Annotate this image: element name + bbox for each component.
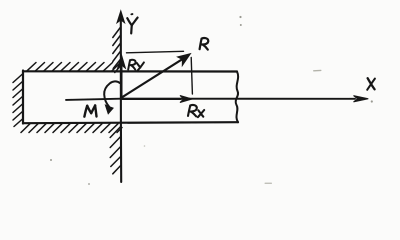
- label X (axis): [367, 78, 375, 90]
- label Y (axis): [127, 18, 137, 34]
- Y axis arrowhead: [117, 11, 125, 24]
- label R (resultant): [200, 38, 209, 50]
- Ry arrowhead: [117, 55, 125, 68]
- beam break line (wavy end): [236, 72, 238, 123]
- Rx arrowhead: [180, 96, 192, 103]
- wall face hatching along Y axis above beam: [113, 28, 121, 73]
- construction line horizontal (from Ry tip to R tip): [127, 51, 184, 53]
- dot above Y: [130, 13, 133, 16]
- beam outline (cantilever bar with broken right end): [22, 71, 24, 124]
- wall hatching below beam bottom edge: [21, 124, 122, 133]
- label Rx: [188, 105, 204, 117]
- resultant vector R: [122, 58, 185, 98]
- hand-lettered labels: [84, 13, 375, 117]
- wall face hatching below beam: [110, 127, 121, 174]
- X axis arrowhead: [354, 96, 369, 102]
- construction line vertical (from R tip to X axis): [191, 58, 192, 95]
- Y axis / wall face vertical line: [120, 17, 122, 182]
- wall hatching left of beam: [13, 74, 23, 127]
- label M (moment): [84, 106, 96, 117]
- wall hatching above beam top edge: [27, 63, 120, 71]
- Ry component arrow (along Y axis): [120, 67, 122, 97]
- moment M arrowhead: [105, 105, 113, 114]
- Rx component arrow (along X axis): [122, 98, 181, 100]
- R arrowhead: [178, 54, 190, 65]
- X axis: [66, 99, 355, 100]
- scan noise specks: [50, 16, 373, 185]
- moment M arc: [104, 81, 120, 106]
- label Ry: [128, 60, 144, 72]
